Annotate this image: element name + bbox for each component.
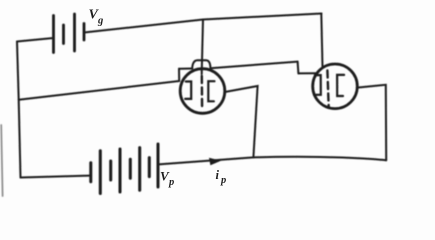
wire: top horizontal from Vg to top-right corner <box>84 14 322 33</box>
wire: V1 cap left wing <box>179 68 192 70</box>
wire: step down into V2 notch <box>297 62 300 74</box>
wire: bottom horizontal <box>159 157 387 165</box>
wire: V2 notch horizontal <box>298 72 317 74</box>
wire: V1 cap right wing toward V2 <box>210 62 297 69</box>
anode of tube V1 <box>208 81 214 101</box>
anode of tube V2 <box>337 75 344 96</box>
tube V1 top cap <box>192 60 210 68</box>
label Vp <box>160 169 174 189</box>
wire: bottom-left horizontal to Vp battery <box>21 176 90 178</box>
wire: grid lead down into tube V1 <box>202 20 203 75</box>
svg-text:p: p <box>168 177 174 188</box>
wire: V1 anode lead right then down <box>225 86 258 157</box>
grid (dashed) of tube V1 <box>201 76 204 110</box>
tube V2 envelope <box>313 64 358 109</box>
battery Vp <box>91 144 158 194</box>
label ip <box>216 168 227 186</box>
cathode of tube V1 <box>185 82 191 99</box>
tube V1 envelope <box>180 69 225 114</box>
wire: grid lead down into tube V2 <box>321 14 322 67</box>
svg-text:p: p <box>220 175 226 186</box>
label Vg <box>89 8 104 27</box>
wire: middle-left horizontal from rail to V1 <box>19 81 180 100</box>
grid (dashed) of tube V2 <box>327 71 328 108</box>
svg-text:g: g <box>97 16 103 27</box>
current arrow ip head <box>209 158 221 166</box>
battery Vg <box>54 14 85 53</box>
svg-text:i: i <box>216 168 220 182</box>
wire: left vertical rail <box>17 42 21 178</box>
wire: top-left from rail to Vg battery <box>17 38 54 42</box>
scan page edge (left) <box>1 125 2 196</box>
cathode of tube V2 <box>314 75 321 95</box>
wire: V1 cathode step <box>178 69 180 81</box>
wire: V2 anode lead right then down right side <box>357 85 386 160</box>
